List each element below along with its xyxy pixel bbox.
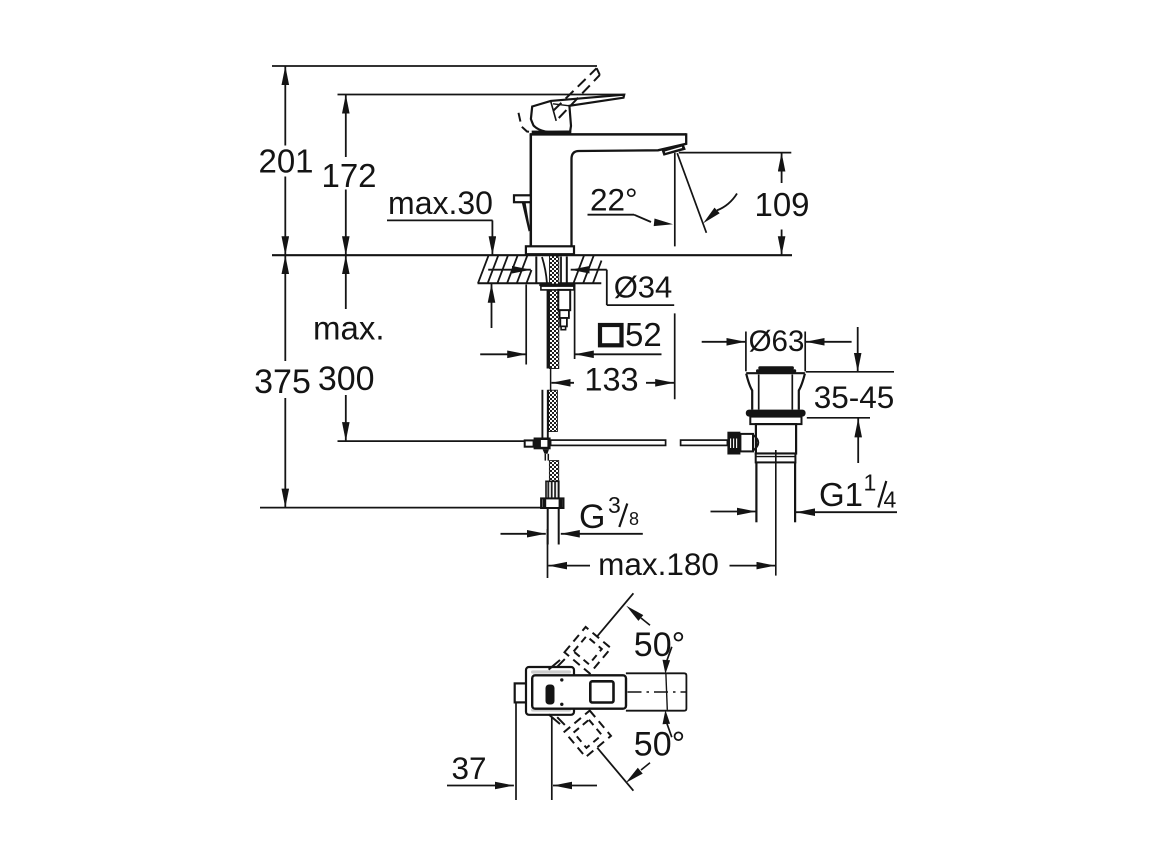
pop-up rod wedge xyxy=(522,203,531,232)
mounting nut xyxy=(539,284,575,287)
dimension max300 xyxy=(345,255,347,309)
svg-text:max.: max. xyxy=(313,310,385,347)
lever raised dashed outline xyxy=(554,68,597,110)
hose end nut (G3/8) xyxy=(541,498,563,508)
dashed lever rotated top inner xyxy=(574,636,602,664)
svg-text:50°: 50° xyxy=(634,725,685,763)
top view dots xyxy=(560,678,563,681)
aerator xyxy=(661,144,686,156)
reference line top (201 level) xyxy=(272,65,597,67)
swing diagonal top (50deg) xyxy=(597,593,633,636)
arrowhead at bottom diagonal xyxy=(626,768,643,783)
dimension 201 xyxy=(284,66,286,146)
svg-text:375: 375 xyxy=(254,363,311,401)
dimension max180 xyxy=(547,529,549,578)
pop-up horizontal rod right xyxy=(681,440,728,445)
waste rubber seal xyxy=(746,410,806,417)
dimension 172 xyxy=(345,95,347,158)
reference line handle tip (172 level) xyxy=(338,94,625,96)
lever crease line xyxy=(551,101,557,121)
hose gap connector line xyxy=(550,369,552,391)
top view cartridge mark xyxy=(546,685,555,705)
waste step band xyxy=(750,417,801,425)
dashed lever rotated top outer xyxy=(564,627,610,673)
waste adjustment knob (knurled) xyxy=(727,432,740,455)
waste flange top xyxy=(746,372,805,374)
arrowhead at envelope top edge xyxy=(663,660,671,674)
pop-up horizontal rod left xyxy=(551,440,666,445)
top view body shading xyxy=(531,670,571,673)
angle arc segment bottom xyxy=(666,722,672,738)
dimension 22deg curved arrow xyxy=(717,194,737,211)
dimension diam34 xyxy=(488,269,531,271)
hose dark left bar xyxy=(547,284,550,369)
drain pipe xyxy=(755,462,757,522)
arrowhead 22deg curved xyxy=(703,208,720,224)
shank tube walls xyxy=(535,257,537,284)
deck hatching left xyxy=(478,256,532,284)
waste body xyxy=(756,424,796,453)
faucet body top edge xyxy=(530,133,687,136)
waste center line xyxy=(775,450,777,576)
faucet body left edge xyxy=(530,134,533,246)
hose middle left tube xyxy=(541,390,543,439)
dimension max30 leader xyxy=(387,219,493,221)
top view lever square xyxy=(590,681,613,702)
svg-text:max.180: max.180 xyxy=(598,546,719,582)
svg-text:300: 300 xyxy=(318,360,375,398)
hose end tube xyxy=(547,508,549,545)
dashed lever shaft top xyxy=(549,660,560,670)
dimension sq52 extension lines xyxy=(525,285,527,365)
arrowhead at envelope bottom edge xyxy=(663,710,671,724)
top view spout protrusion xyxy=(515,683,528,702)
arrowhead 22deg leader xyxy=(654,219,673,227)
waste coupling xyxy=(756,454,796,463)
svg-text:133: 133 xyxy=(584,362,638,398)
second hose connector stack xyxy=(558,290,570,310)
rod reference line (max300 bottom) xyxy=(338,440,526,442)
clamp lower taper xyxy=(543,449,550,454)
dimension 375 xyxy=(284,255,286,361)
svg-text:Ø34: Ø34 xyxy=(614,270,673,305)
deck surface line xyxy=(272,254,792,256)
dimension diam63 xyxy=(702,341,746,343)
svg-text:8: 8 xyxy=(629,509,639,529)
svg-text:50°: 50° xyxy=(634,626,685,664)
angle arc segment top xyxy=(666,647,672,663)
svg-text:172: 172 xyxy=(321,157,376,194)
braided hose lower segment xyxy=(549,461,558,482)
top view lever xyxy=(532,675,626,708)
angle leader tail top xyxy=(641,618,650,625)
svg-text:35-45: 35-45 xyxy=(814,379,895,415)
dimension 35-45 xyxy=(857,327,859,372)
swing envelope rectangle xyxy=(626,673,687,710)
svg-text:52: 52 xyxy=(625,316,662,353)
angle leader tail bottom xyxy=(641,763,650,770)
pop-up rod knob xyxy=(514,195,531,202)
swing diagonal bottom (50deg) xyxy=(597,748,633,791)
waste neck sides xyxy=(746,374,752,410)
dimension 133 xyxy=(552,382,575,384)
svg-text:37: 37 xyxy=(451,750,486,786)
svg-text:1: 1 xyxy=(864,470,877,496)
lever blade underside line xyxy=(553,104,569,106)
pop-up waste plug cap xyxy=(758,366,794,369)
svg-text:Ø63: Ø63 xyxy=(749,325,805,358)
dimension 22deg leader xyxy=(588,214,635,216)
hose end knurl xyxy=(546,481,559,498)
svg-text:3: 3 xyxy=(608,492,621,518)
deck underside line xyxy=(478,282,602,284)
svg-text:G1: G1 xyxy=(819,476,863,513)
dimension sq52 xyxy=(480,353,526,355)
svg-text:109: 109 xyxy=(754,186,809,223)
dashed lever rotated bottom outer xyxy=(564,711,610,757)
hose-end reference line (375 bottom) xyxy=(260,507,548,509)
dimension 109 xyxy=(679,152,792,154)
dashed lever rotated bottom inner xyxy=(574,720,602,748)
braided hose middle segment xyxy=(549,390,558,431)
faucet lever outline xyxy=(531,95,624,133)
arrowhead at top diagonal xyxy=(626,606,643,621)
deck hatching right xyxy=(574,256,602,284)
svg-text:G: G xyxy=(579,498,605,536)
braided hose upper segment xyxy=(550,256,559,369)
label sq52 square symbol xyxy=(600,325,622,345)
dimension 37 xyxy=(447,785,514,787)
water stream vertical line xyxy=(674,153,676,247)
top view body square xyxy=(526,667,574,715)
lever pivot dark band xyxy=(532,131,572,135)
knob connector xyxy=(740,434,753,452)
svg-text:201: 201 xyxy=(258,143,313,180)
dimension G1-1/4 xyxy=(711,511,757,513)
dimension G3/8 xyxy=(501,533,546,535)
faucet base plate xyxy=(526,246,574,254)
svg-text:4: 4 xyxy=(884,487,897,513)
dashed lever shaft bottom xyxy=(549,714,560,724)
faucet spout right edge and underside xyxy=(572,133,687,246)
dimension 133 extension line xyxy=(674,313,676,399)
lever raised dashed base xyxy=(519,113,537,133)
svg-text:22°: 22° xyxy=(590,182,638,218)
center dash-dot line xyxy=(628,691,687,693)
svg-text:max.30: max.30 xyxy=(388,185,493,221)
rod clamp fitting xyxy=(525,440,534,446)
water stream angled line (22deg) xyxy=(677,153,706,233)
